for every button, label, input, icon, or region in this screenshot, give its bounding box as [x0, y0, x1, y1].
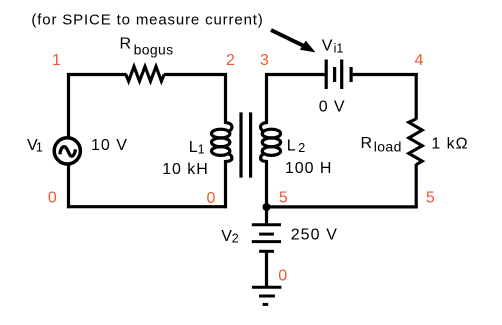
transformer core line right: [249, 112, 252, 177]
svg-text:load: load: [374, 138, 402, 154]
wire: top wire resistor to node 2: [164, 73, 227, 76]
resistor R_load: [409, 119, 422, 165]
svg-text:0: 0: [278, 267, 287, 284]
wire: V1 bottom to bottom rail: [67, 165, 70, 208]
svg-text:R: R: [361, 135, 373, 152]
battery Vi1: [326, 60, 351, 90]
svg-text:0: 0: [48, 189, 57, 206]
svg-text:bogus: bogus: [134, 42, 174, 58]
svg-text:3: 3: [260, 52, 269, 69]
wire: L1 bottom to bottom rail: [224, 160, 227, 208]
wire: R_load to bottom right corner: [415, 164, 418, 208]
svg-text:L: L: [287, 138, 296, 155]
svg-text:2: 2: [226, 52, 235, 69]
svg-text:5: 5: [426, 190, 435, 207]
svg-text:250 V: 250 V: [291, 227, 338, 244]
wire: left loop top wire (node1 to resistor): [67, 73, 127, 76]
ground: [252, 287, 282, 304]
svg-text:10 V: 10 V: [91, 137, 128, 154]
wire: node 4 down to R_load: [415, 73, 418, 120]
svg-text:i1: i1: [334, 41, 344, 55]
svg-text:1 kΩ: 1 kΩ: [431, 135, 468, 152]
svg-text:1: 1: [198, 142, 205, 156]
svg-text:1: 1: [52, 52, 61, 69]
wire: L2 bottom to junction: [265, 160, 268, 207]
svg-text:V: V: [322, 37, 333, 54]
resistor R_bogus: [126, 67, 164, 82]
inductor L2 coil (mirror of L1): [261, 123, 281, 162]
wire: node3 down to L2: [265, 73, 268, 124]
wire: junction down to V2: [265, 207, 268, 225]
svg-text:V: V: [221, 228, 232, 245]
junction node 5 dot: [263, 203, 271, 211]
wire: right loop bottom rail: [265, 205, 418, 208]
wire: V2 to ground: [265, 252, 268, 287]
svg-text:10 kH: 10 kH: [162, 161, 209, 178]
inductor L1 coil: [212, 123, 232, 162]
wire: node2 down to L1: [224, 73, 227, 124]
battery V2: [252, 225, 281, 252]
wire: battery to node 4: [353, 73, 418, 76]
wire: left loop bottom rail: [67, 205, 227, 208]
svg-text:R: R: [120, 36, 132, 53]
svg-text:100 H: 100 H: [285, 160, 332, 177]
sine inside V1: [60, 147, 76, 157]
svg-text:4: 4: [414, 52, 423, 69]
svg-text:2: 2: [232, 232, 239, 246]
AC source V1: [54, 138, 80, 164]
svg-text:0 V: 0 V: [319, 99, 346, 116]
transformer core line left: [239, 112, 242, 177]
svg-text:5: 5: [279, 189, 288, 206]
svg-text:0: 0: [207, 190, 216, 207]
wire: node3 to battery Vi1: [265, 73, 325, 76]
arrow: [271, 30, 316, 52]
svg-text:2: 2: [298, 141, 305, 155]
svg-text:1: 1: [36, 141, 43, 155]
svg-text:L: L: [189, 139, 198, 156]
wire: left loop top-left segment: [67, 73, 70, 137]
svg-text:(for SPICE to measure current): (for SPICE to measure current): [31, 12, 263, 29]
